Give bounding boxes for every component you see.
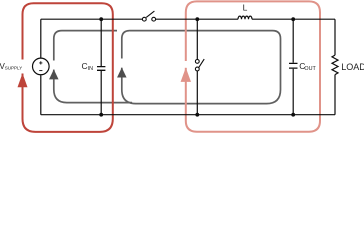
gap in loop B left edge [120,59,123,68]
inductor L winding [238,16,252,19]
wire top rail mid (switch to inductor) [156,18,238,20]
arrow pink loop (up) [181,68,191,82]
current loop gray A (input source loop) [54,31,132,103]
capacitor CIN plates [97,67,105,71]
voltage source VSUPPLY circle [33,58,50,75]
gap in pink loop left edge [184,61,187,68]
arrow loop A (up) [49,69,59,79]
pink loop L2 (output loop highlight) [186,1,320,131]
gap in red loop left edge [21,60,24,74]
svg-text:SUPPLY: SUPPLY [5,66,23,71]
node: Cout top junction [291,17,295,21]
gap in loop A left edge [52,61,55,70]
wire load column / resistor connections [334,19,336,115]
arrow loop B (up) [117,68,127,78]
svg-text:IN: IN [88,66,93,72]
node: switch bottom junction [195,113,199,117]
low-side switch S2 (open, vertical) [195,59,204,71]
node: switch node junction top [195,17,199,21]
wire Vsupply column [40,19,42,115]
svg-text:OUT: OUT [304,66,316,72]
wire low-side switch column [196,19,198,115]
svg-text:L: L [243,2,248,12]
node: Cout bottom junction [291,113,295,117]
black circuit wiring [41,16,335,115]
wire top rail right (inductor to load) [252,18,335,20]
VSUPPLY plus sign [39,61,42,64]
node: Cin top junction [99,17,103,21]
capacitor COUT plates [289,63,298,68]
svg-text:LOAD: LOAD [341,62,364,72]
arrow red loop (up) [18,73,28,87]
current loop gray B (switching loop) [122,31,281,104]
wire Cin column [100,19,102,115]
label VSUPPLY [0,62,25,71]
red loop L1 (input loop highlight) [23,3,113,132]
high-side switch S1 (open, top rail) [142,11,155,21]
wire Cout column [292,19,294,115]
resistor LOAD zigzag [332,55,338,75]
node: Cin bottom junction [99,113,103,117]
wire bottom rail [41,114,335,116]
VSUPPLY minus sign [39,70,42,72]
wire top rail left (Vsupply to switch) [41,18,143,20]
